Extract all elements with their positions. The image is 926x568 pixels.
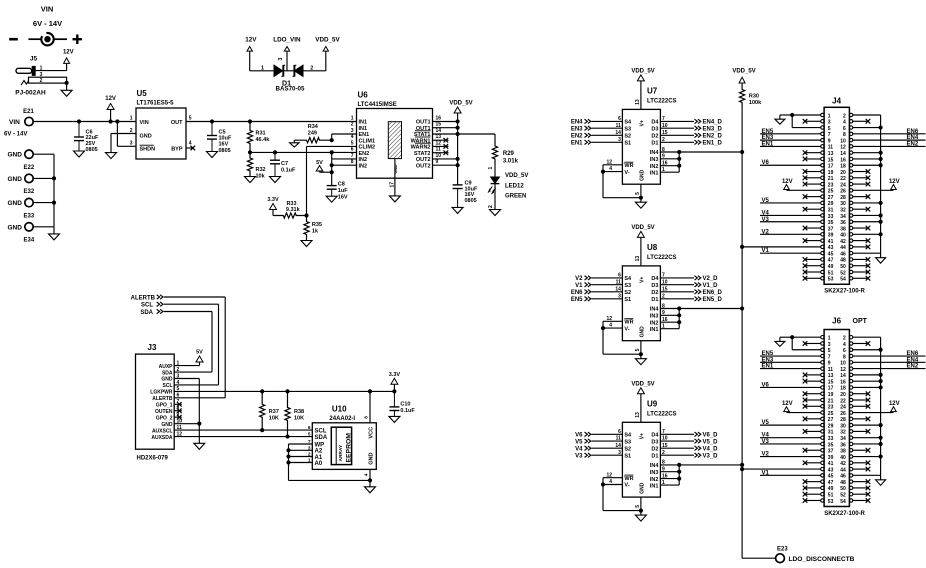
no-connect J6 pin 42: [853, 461, 871, 466]
power flag VDD_5V at U9: [631, 382, 654, 423]
svg-text:1: 1: [828, 336, 831, 342]
power flag 12V at J4 pin 26: [853, 179, 900, 191]
U6 pin 4 CLIM1: [351, 134, 375, 144]
svg-text:V2: V2: [762, 452, 770, 458]
J3 pin 2 SDA: [162, 367, 180, 376]
svg-text:V3: V3: [575, 453, 583, 459]
pin 4 U5: [189, 141, 192, 147]
svg-text:S2: S2: [624, 290, 631, 296]
J4 pins 25/26: [821, 189, 853, 195]
junction U10 A0: [286, 460, 290, 464]
svg-text:4: 4: [351, 134, 354, 140]
svg-text:EN2: EN2: [359, 151, 370, 157]
no-connect J6 pin 4: [853, 341, 871, 346]
J4 pins 27/28: [821, 195, 853, 201]
U6 pin 10 OUT2: [416, 153, 441, 163]
junction J6 pin 30: [879, 423, 883, 427]
net EN1 at J6 pin 11: [760, 364, 821, 370]
svg-text:S3: S3: [624, 126, 631, 132]
junction J4 pin 36: [879, 220, 883, 224]
U6 pin 11 STAT2: [414, 147, 441, 157]
svg-text:V3: V3: [762, 217, 770, 223]
svg-text:CLIM1: CLIM1: [359, 138, 376, 144]
net EN4 at J6 pin 10: [853, 357, 926, 363]
svg-text:3: 3: [618, 293, 621, 299]
no-connect J4 pin 15: [803, 157, 821, 162]
junction U9 V-: [601, 482, 605, 486]
power flag LDO_VIN: [273, 36, 301, 71]
ground at U7: [635, 202, 646, 208]
svg-text:SDA: SDA: [315, 435, 328, 441]
U8 pin 11 S3 input V1: [575, 279, 631, 289]
svg-text:C5: C5: [219, 129, 226, 135]
wire J4 pin 40 gnd: [853, 233, 881, 235]
junction R37 bottom: [260, 428, 264, 432]
svg-text:V1: V1: [575, 283, 583, 289]
svg-text:S4: S4: [624, 433, 632, 439]
wire U9 IN bus: [660, 465, 742, 485]
resistor R30: [740, 85, 763, 107]
no-connect J4 pin 23: [803, 182, 821, 187]
no-connect J3 pin 9: [174, 415, 182, 420]
svg-text:14: 14: [615, 286, 621, 292]
svg-text:IN2: IN2: [359, 163, 368, 169]
junction J6 pin 40: [879, 454, 883, 458]
junction C6 top: [77, 119, 81, 123]
U9 pin 4 V-: [603, 479, 630, 489]
svg-text:18: 18: [840, 164, 846, 170]
U8 pin 10 D3 output V1_D: [651, 279, 718, 289]
svg-text:WP: WP: [315, 442, 325, 448]
J4 pins 39/40: [821, 233, 853, 239]
svg-text:5: 5: [635, 348, 641, 351]
wire E32 to gnd bus: [33, 177, 54, 179]
svg-text:VIN: VIN: [9, 119, 20, 126]
svg-text:10: 10: [840, 138, 846, 144]
svg-text:U6: U6: [358, 91, 369, 100]
svg-text:D2: D2: [651, 290, 658, 296]
svg-text:6: 6: [618, 429, 621, 435]
resistor R32: [247, 152, 265, 179]
J3 pin 10 GND: [161, 418, 182, 427]
net EN5 at J4 pin 7: [760, 129, 821, 135]
power flag VDD_5V at U7: [631, 69, 654, 110]
junction IN2 pin8: [330, 163, 334, 167]
svg-text:D4: D4: [651, 276, 659, 282]
junction U9 IN3: [677, 470, 681, 474]
ground at J5: [61, 90, 72, 96]
junction R38 bottom: [285, 434, 289, 438]
wire J5 sleeve to ground: [66, 83, 68, 90]
U10 GND pin 4: [364, 453, 375, 487]
svg-text:EN1: EN1: [762, 364, 774, 370]
wire LDO_DISCONNECTB to J4 pin 43: [742, 246, 821, 248]
no-connect J4 pin 3: [803, 119, 821, 124]
ground at U6 pad: [389, 196, 400, 202]
svg-text:12V: 12V: [245, 36, 257, 43]
ground at R35: [301, 241, 312, 247]
pin 5 U5: [189, 116, 192, 122]
svg-text:D4: D4: [651, 120, 659, 126]
U7 pin 3 S1 input EN1: [571, 137, 631, 147]
J6 pins 35/36: [821, 442, 853, 448]
wire EN2 node: [250, 151, 357, 153]
svg-text:LTC222CS: LTC222CS: [647, 411, 677, 417]
wire U6 output to rail: [433, 164, 458, 166]
connector J4 SK2X27-100-R: [824, 97, 865, 295]
svg-text:4: 4: [843, 120, 846, 126]
svg-text:52: 52: [840, 493, 846, 499]
svg-text:100k: 100k: [749, 100, 762, 106]
net SCL input: [141, 302, 163, 309]
ground at LED12: [490, 210, 501, 216]
svg-text:AUXSCL: AUXSCL: [152, 428, 173, 434]
resistor R37: [260, 391, 279, 430]
svg-text:12V: 12V: [782, 179, 793, 185]
svg-text:WARN2: WARN2: [411, 145, 431, 151]
svg-text:EN5: EN5: [571, 297, 583, 303]
svg-text:EN6: EN6: [907, 351, 919, 357]
svg-text:V6_D: V6_D: [703, 433, 719, 439]
power flag 3.3V at R33: [267, 197, 279, 215]
svg-text:V1: V1: [762, 248, 770, 254]
svg-text:3.3V: 3.3V: [389, 372, 401, 378]
no-connect J6 pin 51: [803, 492, 821, 497]
svg-text:34: 34: [840, 214, 846, 220]
J6 pins 1/2: [821, 336, 853, 342]
svg-text:31: 31: [828, 430, 834, 436]
svg-text:11: 11: [616, 279, 622, 285]
svg-text:IN3: IN3: [650, 157, 659, 163]
svg-text:V-: V-: [624, 483, 629, 489]
net EN2 at J6 pin 12: [853, 364, 926, 370]
junction J6 pin 6: [879, 348, 883, 352]
svg-text:EN3: EN3: [762, 357, 774, 363]
junction rail U7: [740, 150, 744, 154]
junction U9 IN4: [677, 463, 681, 467]
wire J6 pin 14 gnd: [853, 374, 881, 376]
svg-text:3: 3: [618, 137, 621, 143]
J4 pins 41/42: [821, 239, 853, 245]
no-connect J6 pin 32: [853, 429, 871, 434]
svg-text:V5: V5: [575, 439, 583, 445]
svg-text:D4: D4: [651, 433, 659, 439]
svg-text:V5: V5: [762, 198, 770, 204]
svg-text:OPT: OPT: [853, 318, 868, 325]
svg-text:EEPROM: EEPROM: [346, 433, 353, 463]
U10 pin 3 A2: [308, 445, 323, 454]
U7 pin 5 GND: [635, 169, 646, 202]
svg-text:R35: R35: [312, 222, 322, 228]
svg-text:1k: 1k: [312, 228, 319, 234]
svg-text:EN5: EN5: [762, 351, 774, 357]
svg-text:9: 9: [436, 159, 439, 165]
svg-text:3: 3: [351, 128, 354, 134]
junction U8 IN2: [677, 320, 681, 324]
U9 pin 6 S4 input V6: [575, 429, 632, 439]
J6 pins 43/44: [821, 467, 853, 473]
svg-text:S3: S3: [624, 439, 631, 445]
svg-text:37: 37: [828, 226, 834, 232]
svg-text:12: 12: [436, 140, 442, 146]
svg-text:D2: D2: [651, 446, 658, 452]
net V5 at J4 pin 29: [760, 198, 821, 204]
wire E34 to gnd bus: [33, 226, 54, 228]
ground at U5: [106, 153, 117, 159]
J3 pin 7 GPO_1: [156, 399, 180, 408]
svg-text:EN2_D: EN2_D: [703, 134, 723, 140]
junction U10 A2: [286, 448, 290, 452]
svg-text:22: 22: [840, 398, 846, 404]
U6 pad pin 17: [389, 178, 395, 196]
svg-text:32: 32: [840, 208, 846, 214]
svg-text:ARRAY: ARRAY: [338, 444, 344, 461]
no-connect U5 BYP: [186, 146, 195, 151]
svg-text:V5_D: V5_D: [703, 439, 719, 445]
svg-text:13: 13: [635, 412, 641, 418]
junction rail U9: [740, 463, 744, 467]
power flag VDD_5V at D1: [315, 36, 340, 71]
U7 pin 15 D2 output EN2_D: [651, 130, 722, 140]
J6 pins 49/50: [821, 486, 853, 492]
U8 pin 6 S4 input V2: [575, 273, 632, 283]
junction R34 EN1: [330, 138, 334, 142]
svg-text:8: 8: [364, 416, 370, 419]
wire J4 pin 18 gnd: [853, 164, 881, 166]
svg-text:18: 18: [840, 386, 846, 392]
svg-text:6V - 14V: 6V - 14V: [4, 132, 27, 138]
J4 pins 5/6: [821, 126, 853, 132]
power flag 12V at J6 pin 25: [782, 401, 821, 413]
no-connect J6 pin 19: [803, 391, 821, 396]
no-connect J6 pin 50: [853, 486, 871, 491]
J6 pins 19/20: [821, 392, 853, 398]
svg-text:LT1761ES5-5: LT1761ES5-5: [137, 101, 175, 107]
svg-text:28: 28: [840, 417, 846, 423]
svg-text:29: 29: [828, 423, 834, 429]
resistor R29: [492, 134, 518, 165]
svg-text:15: 15: [828, 379, 834, 385]
svg-text:OUT: OUT: [171, 120, 183, 126]
U8 pin 14 S2 input EN6: [571, 286, 631, 296]
svg-text:7: 7: [828, 132, 831, 138]
svg-text:V6: V6: [575, 433, 583, 439]
svg-text:R34: R34: [308, 124, 319, 130]
no-connect J6 pin 23: [803, 404, 821, 409]
svg-text:12V: 12V: [63, 50, 74, 56]
svg-text:E23: E23: [777, 546, 788, 552]
J3 pin 1 AUXP: [159, 360, 180, 369]
wire J6 pin 30 gnd: [853, 424, 881, 426]
junction J4 pin 34: [879, 213, 883, 217]
svg-text:11: 11: [828, 145, 834, 151]
junction U7 IN2: [677, 164, 681, 168]
svg-text:IN1: IN1: [359, 126, 368, 132]
ground at C7: [270, 177, 281, 183]
J6 pins 25/26: [821, 411, 853, 417]
svg-text:10K: 10K: [294, 416, 304, 422]
wire U5 GND pin to ground: [111, 134, 136, 153]
svg-text:45: 45: [828, 474, 834, 480]
junction J4 pin 6: [879, 125, 883, 129]
wire U6 output to rail: [433, 158, 458, 160]
svg-text:9.31k: 9.31k: [286, 207, 301, 213]
junction J6 pin 34: [879, 436, 883, 440]
J6 pins 11/12: [821, 367, 853, 373]
EEPROM U10 24AA02-I: [312, 405, 376, 470]
svg-text:D1: D1: [651, 141, 658, 147]
U6 pin 6 EN2: [351, 147, 369, 157]
svg-text:SK2X27-100-R: SK2X27-100-R: [824, 511, 865, 517]
no-connect J4 pin 20: [853, 169, 871, 174]
net V1 at J6 pin 45: [760, 470, 821, 476]
svg-text:12V: 12V: [889, 179, 900, 185]
U9 pin 11 S3 input V5: [575, 436, 631, 446]
junction U8 GND: [639, 352, 643, 356]
J4 pins 21/22: [821, 176, 853, 182]
no-connect U6 pin: [433, 138, 449, 143]
no-connect J6 pin 54: [853, 498, 871, 503]
svg-text:LDO_VIN: LDO_VIN: [273, 36, 301, 43]
net EN6 at J4 pin 8: [853, 129, 926, 135]
svg-text:EN1: EN1: [359, 132, 370, 138]
svg-text:GND: GND: [639, 169, 645, 181]
svg-text:WR: WR: [624, 476, 633, 482]
svg-text:1: 1: [488, 167, 494, 170]
junction rail J6 pin 43: [740, 467, 744, 471]
svg-text:17: 17: [828, 164, 834, 170]
svg-text:R29: R29: [503, 151, 515, 157]
U6 pin 12 WARN2: [411, 140, 442, 150]
net EN1 at J4 pin 11: [760, 141, 821, 147]
svg-text:EN4: EN4: [907, 135, 919, 141]
wire J6 pin 6 gnd: [853, 349, 881, 351]
svg-text:5: 5: [635, 192, 641, 195]
wire D1 common cathode: [278, 58, 294, 71]
junction IN2 riser top: [330, 150, 334, 154]
wire J6 pin 34 gnd: [853, 437, 881, 439]
no-connect J4 pin 41: [803, 238, 821, 243]
svg-text:LGKPWR: LGKPWR: [150, 390, 173, 396]
U9 pin 8 IN4: [650, 460, 665, 469]
svg-text:14: 14: [840, 373, 846, 379]
ground at C10: [389, 416, 400, 422]
wire J3 pin6 ALERTB: [174, 397, 225, 399]
svg-text:13: 13: [828, 373, 834, 379]
svg-text:GPO_2: GPO_2: [156, 415, 173, 421]
no-connect J6 pin 3: [803, 341, 821, 346]
no-connect J6 pin 13: [803, 373, 821, 378]
no-connect J4 pin 48: [853, 257, 871, 262]
resistor R35: [304, 216, 322, 241]
svg-text:6V - 14V: 6V - 14V: [33, 19, 62, 28]
wire J6 pin 16 gnd: [853, 380, 881, 382]
wire U5 SHDN to VIN: [117, 122, 136, 147]
svg-text:31: 31: [828, 208, 834, 214]
svg-text:V3_D: V3_D: [703, 453, 719, 459]
svg-text:6: 6: [618, 273, 621, 279]
svg-text:IN3: IN3: [650, 470, 659, 476]
svg-text:10uF: 10uF: [219, 136, 232, 142]
svg-text:SDA: SDA: [140, 310, 153, 316]
svg-text:V2: V2: [762, 229, 770, 235]
svg-text:V6: V6: [762, 382, 770, 388]
svg-text:27: 27: [828, 417, 834, 423]
svg-text:EN2: EN2: [571, 134, 583, 140]
svg-text:5: 5: [308, 432, 311, 438]
svg-text:12V: 12V: [889, 401, 900, 407]
svg-text:D3: D3: [651, 126, 658, 132]
svg-text:21: 21: [828, 398, 834, 404]
svg-text:V6: V6: [762, 160, 770, 166]
wire J3 pin11 AUXSCL to U10: [174, 429, 312, 431]
LED12 GREEN: [488, 164, 529, 210]
U10 pin 2 A1: [308, 452, 323, 461]
wire ALERTB to J3: [164, 297, 225, 398]
svg-text:WR: WR: [624, 320, 633, 326]
junction C5 top: [210, 119, 214, 123]
svg-text:IN2: IN2: [650, 477, 659, 483]
junction SHDN riser: [115, 119, 119, 123]
svg-text:30: 30: [840, 423, 846, 429]
wire SCL to J3: [164, 304, 219, 385]
svg-text:12: 12: [840, 367, 846, 373]
no-connect J6 pin 49: [803, 486, 821, 491]
svg-text:S1: S1: [624, 453, 631, 459]
svg-text:WR: WR: [624, 163, 633, 169]
U6 pin 3 EN1: [351, 128, 369, 138]
svg-text:44: 44: [840, 467, 846, 473]
svg-text:ALERTB: ALERTB: [131, 295, 156, 301]
svg-text:S4: S4: [624, 276, 632, 282]
svg-text:24AA02-I: 24AA02-I: [329, 416, 355, 422]
wire LDO_DISCONNECTB rail: [742, 107, 775, 558]
J4 pins 19/20: [821, 170, 853, 176]
svg-text:39: 39: [828, 455, 834, 461]
U8 pin 5 GND: [635, 326, 646, 359]
svg-text:37: 37: [828, 449, 834, 455]
svg-text:D3: D3: [651, 283, 658, 289]
net ALERTB input: [131, 295, 163, 302]
ground at C5: [207, 152, 218, 158]
junction U7 GND: [639, 196, 643, 200]
svg-text:EN4_D: EN4_D: [703, 120, 723, 126]
svg-text:2: 2: [843, 113, 846, 119]
J3 pin 12 AUXSDA: [151, 431, 182, 440]
svg-text:16V: 16V: [338, 195, 348, 201]
svg-text:10K: 10K: [269, 416, 279, 422]
J4 pins 1/2: [821, 113, 853, 119]
svg-text:1: 1: [261, 66, 264, 72]
J4 pins 11/12: [821, 145, 853, 151]
svg-text:47: 47: [828, 258, 834, 264]
wire J3 pin5 LGKPWR to 3.3V: [174, 390, 394, 392]
svg-text:2: 2: [843, 336, 846, 342]
svg-text:46: 46: [840, 474, 846, 480]
U7 pin 7 D4 output EN4_D: [651, 116, 722, 126]
no-connect J6 pin 37: [803, 448, 821, 453]
svg-text:3.01k: 3.01k: [503, 159, 519, 165]
U7 pin 4 V-: [603, 166, 630, 176]
junction J5 sleeve: [65, 81, 69, 85]
svg-text:VDD_5V: VDD_5V: [631, 225, 654, 231]
svg-text:IN1: IN1: [359, 120, 368, 126]
resistor R38: [285, 391, 304, 436]
wire U7 V- WR to ground: [603, 165, 641, 198]
U9 pin 3 S1 input V3: [575, 450, 631, 460]
svg-text:OUTEN: OUTEN: [155, 409, 173, 415]
svg-text:SHDN: SHDN: [140, 147, 156, 153]
